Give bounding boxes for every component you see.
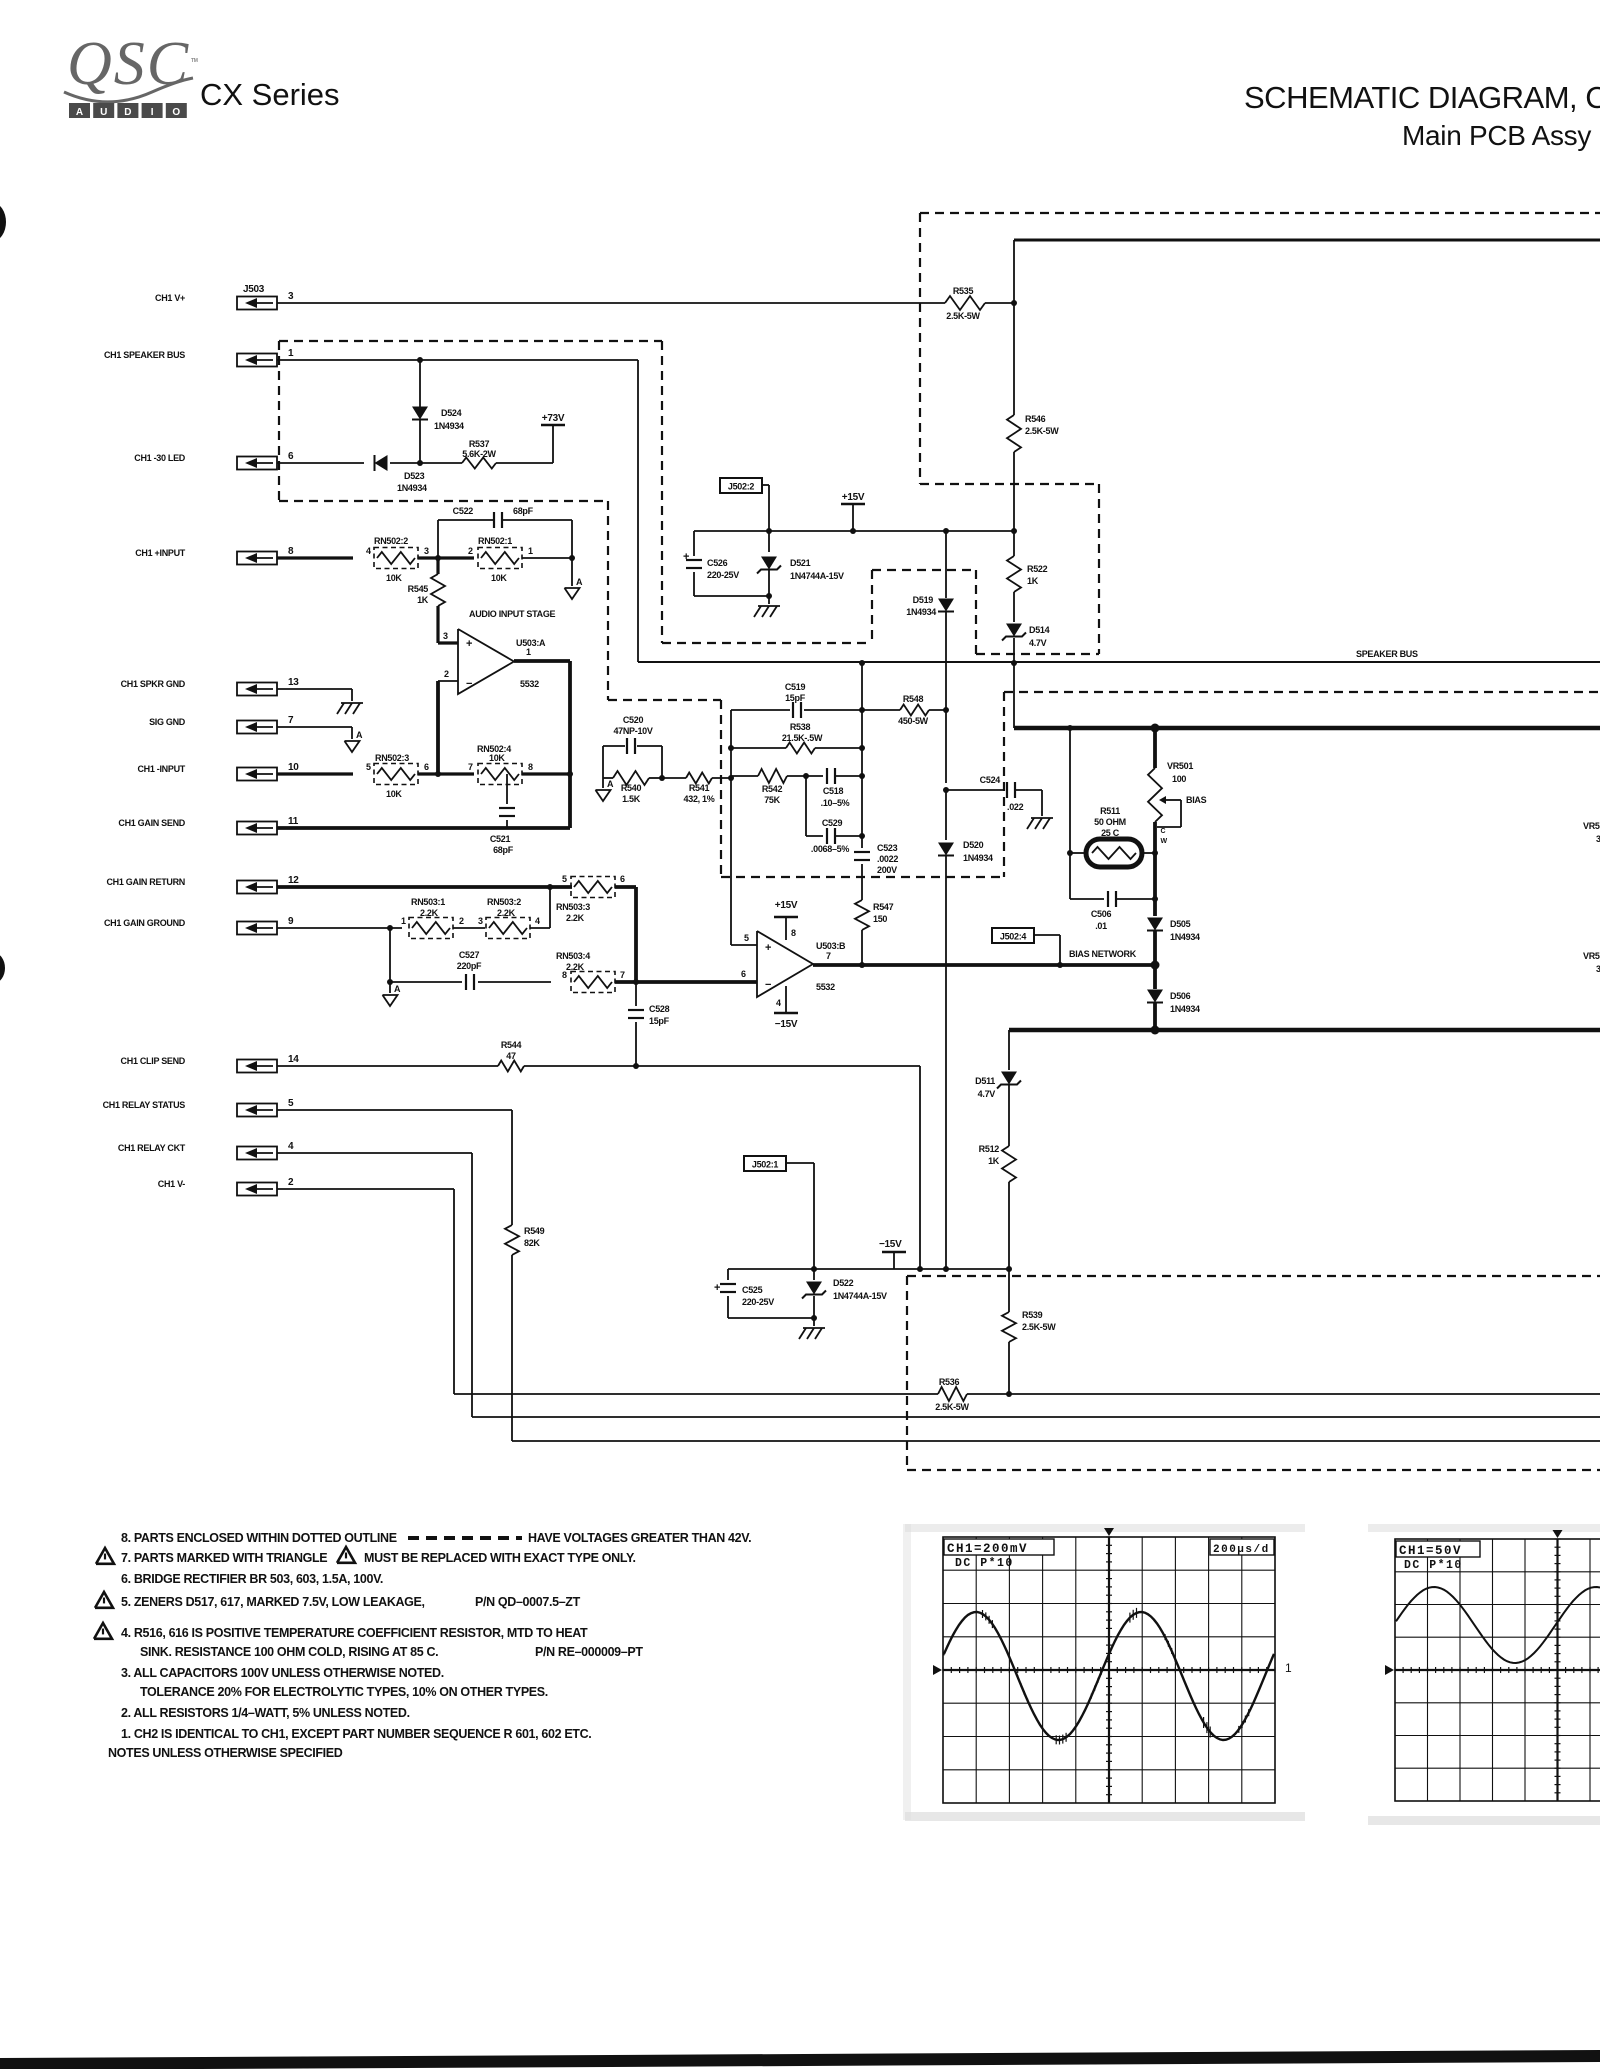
svg-text:5532: 5532 xyxy=(520,679,539,689)
connector J503 pin 11 (CH1 GAIN SEND) xyxy=(118,816,298,835)
ground (D522) xyxy=(799,1318,825,1339)
svg-text:2.2K: 2.2K xyxy=(497,908,516,918)
svg-text:3: 3 xyxy=(1596,964,1600,974)
svg-text:DC P*10: DC P*10 xyxy=(955,1557,1014,1570)
svg-text:.10–5%: .10–5% xyxy=(821,798,850,808)
wire J502:2 to +15V rail xyxy=(762,485,772,534)
wire RN502:2 to RN502:1 xyxy=(418,555,474,561)
svg-text:4: 4 xyxy=(776,998,781,1008)
capacitor C529 xyxy=(806,776,865,854)
svg-text:68pF: 68pF xyxy=(513,506,534,516)
svg-text:6: 6 xyxy=(288,451,294,462)
connector J503 pin 4 (CH1 RELAY CKT) xyxy=(118,1141,294,1160)
svg-text:A: A xyxy=(76,107,83,118)
wire CH1 -INPUT (J503:10) xyxy=(277,772,353,775)
wire CH1 CLIP SEND (J503:14) xyxy=(277,1065,498,1067)
svg-text:8: 8 xyxy=(528,762,533,772)
svg-text:R538: R538 xyxy=(790,722,811,732)
svg-text:−: − xyxy=(765,979,771,991)
diode D519 xyxy=(906,531,954,710)
label VR503 (cut at edge) xyxy=(1583,951,1600,974)
svg-text:Main PCB Assy: Main PCB Assy xyxy=(1402,120,1591,151)
wire gain return down xyxy=(634,887,638,982)
hole punch mark (top left edge) xyxy=(0,203,6,241)
svg-text:CH1=50V: CH1=50V xyxy=(1399,1544,1462,1558)
svg-text:R544: R544 xyxy=(501,1040,522,1050)
wire U503:A -in xyxy=(438,669,458,681)
svg-text:AUDIO INPUT STAGE: AUDIO INPUT STAGE xyxy=(469,609,556,619)
resistor R522 xyxy=(1007,531,1048,592)
svg-text:CH1 GAIN SEND: CH1 GAIN SEND xyxy=(118,818,185,828)
svg-text:432, 1%: 432, 1% xyxy=(684,794,715,804)
note 1 xyxy=(121,1727,591,1741)
svg-text:1.5K: 1.5K xyxy=(622,794,641,804)
svg-text:5.6K-2W: 5.6K-2W xyxy=(462,449,496,459)
resistor network RN502:3 xyxy=(366,753,429,799)
svg-text:CX Series: CX Series xyxy=(200,77,340,112)
svg-text:4.7V: 4.7V xyxy=(978,1089,996,1099)
wire R549 to right edge xyxy=(512,1255,1600,1441)
svg-text:R545: R545 xyxy=(408,584,429,594)
svg-text:R535: R535 xyxy=(953,286,974,296)
wire heavy bus bottom xyxy=(1009,1026,1600,1035)
svg-text:10K: 10K xyxy=(386,573,402,583)
wire bias column mid xyxy=(1153,853,1157,916)
svg-text:CH1 -INPUT: CH1 -INPUT xyxy=(137,764,185,774)
svg-text:1K: 1K xyxy=(988,1156,1000,1166)
svg-text:7: 7 xyxy=(468,762,473,772)
resistor R549 xyxy=(505,1225,545,1255)
svg-text:7. PARTS MARKED WITH TRIANGLE: 7. PARTS MARKED WITH TRIANGLE xyxy=(121,1551,327,1565)
svg-text:R542: R542 xyxy=(762,784,783,794)
svg-text:P/N RE–000009–PT: P/N RE–000009–PT xyxy=(535,1645,643,1659)
connector J503 pin 13 (CH1 SPKR GND) xyxy=(121,677,300,696)
svg-text:C528: C528 xyxy=(649,1004,670,1014)
svg-text:15pF: 15pF xyxy=(649,1016,670,1026)
wire R536 to right edge xyxy=(967,1391,1600,1397)
zener diode D514 xyxy=(1002,592,1050,728)
wire output rail mid xyxy=(861,710,863,848)
svg-text:8: 8 xyxy=(562,970,567,980)
svg-text:5: 5 xyxy=(366,762,371,772)
QSC logo xyxy=(64,30,198,102)
svg-text:TM: TM xyxy=(191,58,198,64)
svg-text:D521: D521 xyxy=(790,558,811,568)
oscilloscope screen 2 (CH1=50V) xyxy=(1385,1530,1600,1801)
ground (spkr gnd) xyxy=(337,703,363,714)
wire speaker bus (to right edge) xyxy=(638,661,1600,663)
svg-text:C525: C525 xyxy=(742,1285,763,1295)
resistor R545 xyxy=(408,558,445,606)
svg-text:+73V: +73V xyxy=(542,413,565,424)
wire speaker bus down xyxy=(637,360,639,662)
wire +in rail (C519/R538 left) xyxy=(728,710,734,778)
svg-text:7: 7 xyxy=(288,715,294,726)
wire D511 branch top xyxy=(1008,1030,1010,1070)
label pin 6 (U503:B) xyxy=(741,969,746,979)
svg-text:2. ALL RESISTORS 1/4–WATT, 5%: 2. ALL RESISTORS 1/4–WATT, 5% UNLESS NOT… xyxy=(121,1706,410,1720)
svg-text:1N4934: 1N4934 xyxy=(906,607,936,617)
zener diode D521 xyxy=(757,531,844,596)
svg-text:1K: 1K xyxy=(417,595,429,605)
ground (D521) xyxy=(754,596,780,617)
svg-text:200μs/d: 200μs/d xyxy=(1213,1544,1270,1556)
svg-text:1. CH2 IS IDENTICAL TO CH1, EX: 1. CH2 IS IDENTICAL TO CH1, EXCEPT PART … xyxy=(121,1727,591,1741)
svg-text:+: + xyxy=(765,942,771,954)
wire -15V rail xyxy=(728,1266,1012,1272)
svg-text:SPEAKER BUS: SPEAKER BUS xyxy=(1356,649,1418,659)
thermistor R511 xyxy=(1067,806,1155,867)
svg-text:25 C: 25 C xyxy=(1101,828,1120,838)
ground A (C520 loop) xyxy=(596,778,615,801)
hole punch mark (mid left edge) xyxy=(0,953,5,983)
svg-text:12: 12 xyxy=(288,875,299,886)
svg-text:R547: R547 xyxy=(873,902,894,912)
svg-text:D506: D506 xyxy=(1170,991,1191,1001)
svg-text:R522: R522 xyxy=(1027,564,1048,574)
svg-text:RN502:2: RN502:2 xyxy=(374,536,408,546)
wire bias network output xyxy=(813,961,1160,970)
capacitor C518 xyxy=(787,768,865,808)
wire R546 to +15V rail xyxy=(1013,452,1015,531)
svg-text:−15V: −15V xyxy=(879,1239,902,1250)
ground (C524) xyxy=(1027,818,1053,829)
op-amp U503:B xyxy=(757,931,846,997)
wire CH1 RELAY STATUS (J503:5) xyxy=(277,1110,512,1225)
svg-text:8: 8 xyxy=(288,546,294,557)
resistor R548 xyxy=(862,694,949,726)
svg-text:.0022: .0022 xyxy=(877,854,898,864)
svg-text:+: + xyxy=(683,551,689,563)
svg-text:CH1 +INPUT: CH1 +INPUT xyxy=(135,548,186,558)
svg-text:C520: C520 xyxy=(623,715,644,725)
svg-text:CH1=200mV: CH1=200mV xyxy=(947,1542,1028,1556)
wire CH1 SPEAKER BUS (J503:1) xyxy=(277,357,638,363)
label CW (VR501) xyxy=(1161,828,1168,845)
wire V+ node down to R546 xyxy=(1013,303,1015,415)
svg-text:1: 1 xyxy=(1285,1661,1292,1675)
svg-text:6. BRIDGE RECTIFIER BR 503, 60: 6. BRIDGE RECTIFIER BR 503, 603, 1.5A, 1… xyxy=(121,1572,383,1586)
diode D523 xyxy=(375,455,428,493)
wire R544 to clip node xyxy=(524,1063,920,1069)
svg-text:3. ALL CAPACITORS 100V UNLESS: 3. ALL CAPACITORS 100V UNLESS OTHERWISE … xyxy=(121,1666,444,1680)
svg-text:CH1 RELAY CKT: CH1 RELAY CKT xyxy=(118,1143,186,1153)
zener diode D511 xyxy=(975,1072,1021,1147)
svg-text:R539: R539 xyxy=(1022,1310,1043,1320)
svg-text:200V: 200V xyxy=(877,865,897,875)
svg-text:RN503:1: RN503:1 xyxy=(411,897,445,907)
scan bar (bottom) xyxy=(0,2050,1600,2069)
resistor R535 xyxy=(945,286,985,321)
wire RN503:1 to RN503:2 xyxy=(453,927,485,929)
wire D523 to D524 node xyxy=(390,460,462,466)
wire CH1 GAIN RETURN (J503:12) xyxy=(277,884,572,890)
svg-text:R512: R512 xyxy=(979,1144,1000,1154)
svg-text:U: U xyxy=(100,107,107,118)
svg-text:82K: 82K xyxy=(524,1238,540,1248)
svg-text:D519: D519 xyxy=(913,595,934,605)
svg-text:2.5K-5W: 2.5K-5W xyxy=(935,1402,969,1412)
svg-text:4: 4 xyxy=(366,546,371,556)
svg-text:U503:A: U503:A xyxy=(516,638,546,648)
oscilloscope screen 1 (CH1=200mV) xyxy=(933,1528,1292,1803)
svg-text:VR501: VR501 xyxy=(1167,761,1193,771)
svg-text:50 OHM: 50 OHM xyxy=(1094,817,1126,827)
svg-text:150: 150 xyxy=(873,914,887,924)
note 7 xyxy=(96,1547,636,1565)
wire R545 to U503:A +in xyxy=(438,606,458,643)
connector J503 pin 8 (CH1 +INPUT) xyxy=(135,546,294,565)
svg-text:A: A xyxy=(394,984,401,994)
wire RN502:4 out xyxy=(522,771,573,777)
wire clip node down to -15V rail xyxy=(917,1066,923,1272)
svg-text:D522: D522 xyxy=(833,1278,854,1288)
note 5 xyxy=(95,1592,581,1609)
wire CH1 +INPUT (J503:8) xyxy=(277,556,353,559)
svg-text:RN502:1: RN502:1 xyxy=(478,536,512,546)
resistor network RN503:4 xyxy=(556,951,625,993)
wire +15V rail xyxy=(694,528,1017,534)
svg-text:1N4744A-15V: 1N4744A-15V xyxy=(790,571,844,581)
capacitor C522 (feedback loop) xyxy=(438,506,572,558)
wire +in rail down to U503:B xyxy=(730,778,732,945)
svg-text:+: + xyxy=(466,638,472,650)
wire gain ground down xyxy=(387,928,393,985)
svg-text:2.5K-5W: 2.5K-5W xyxy=(1025,426,1059,436)
diode D524 xyxy=(412,360,464,463)
svg-text:1: 1 xyxy=(526,647,531,657)
svg-text:R541: R541 xyxy=(689,783,710,793)
connector J503 pin 10 (CH1 -INPUT) xyxy=(137,762,299,781)
connector J502:1 xyxy=(744,1156,786,1171)
wire J502:1 down xyxy=(786,1163,817,1272)
svg-text:D514: D514 xyxy=(1029,625,1050,635)
svg-text:D520: D520 xyxy=(963,840,984,850)
capacitor C521 xyxy=(490,774,515,855)
svg-text:6: 6 xyxy=(620,874,625,884)
wire feedback (output to gain send) xyxy=(568,661,572,828)
capacitor C523 xyxy=(854,843,898,900)
note 6 xyxy=(121,1572,383,1586)
note 4 xyxy=(94,1623,643,1659)
resistor R537 xyxy=(462,439,497,469)
svg-text:5: 5 xyxy=(288,1098,294,1109)
svg-text:1: 1 xyxy=(288,348,294,359)
svg-text:VR50: VR50 xyxy=(1583,821,1600,831)
svg-text:−: − xyxy=(466,678,472,690)
svg-text:7: 7 xyxy=(620,970,625,980)
net label SPEAKER BUS xyxy=(1356,649,1418,659)
svg-text:RN503:3: RN503:3 xyxy=(556,902,590,912)
wire CH1 -30 LED (J503:6) xyxy=(277,462,364,464)
svg-text:.0068–5%: .0068–5% xyxy=(811,844,849,854)
note 3 xyxy=(121,1666,548,1699)
wire D519 rail down xyxy=(943,710,949,793)
op-amp U503:A xyxy=(458,629,546,694)
note 2 xyxy=(121,1706,410,1720)
svg-text:D511: D511 xyxy=(975,1076,995,1086)
connector J503 pin 9 (CH1 GAIN GROUND) xyxy=(104,916,294,935)
ground A (+input) xyxy=(565,558,584,599)
svg-text:SINK. RESISTANCE 100 OHM COLD: SINK. RESISTANCE 100 OHM COLD, RISING AT… xyxy=(140,1645,438,1659)
svg-text:CH1 -30 LED: CH1 -30 LED xyxy=(134,453,186,463)
resistor network RN503:3 xyxy=(556,874,625,923)
sheet title SCHEMATIC DIAGRAM xyxy=(1244,80,1600,115)
svg-text:4.7V: 4.7V xyxy=(1029,638,1047,648)
wire RN503:4 to U503:B -in xyxy=(615,979,757,985)
svg-text:11: 11 xyxy=(288,816,299,827)
wire gain return tap xyxy=(549,887,551,928)
svg-text:W: W xyxy=(1161,838,1168,845)
capacitor C526 xyxy=(683,531,739,596)
wire CH1 RELAY CKT (J503:4) xyxy=(277,1153,1600,1417)
svg-text:DC P*10: DC P*10 xyxy=(1404,1559,1463,1572)
ground A (sig gnd) xyxy=(345,730,364,752)
resistor R546 xyxy=(1007,414,1059,452)
capacitor C525 xyxy=(714,1269,774,1318)
svg-text:5: 5 xyxy=(562,874,567,884)
svg-text:SIG GND: SIG GND xyxy=(149,717,186,727)
svg-text:.01: .01 xyxy=(1095,921,1107,931)
svg-text:1N4934: 1N4934 xyxy=(434,421,464,431)
svg-text:+15V: +15V xyxy=(775,900,798,911)
svg-text:C521: C521 xyxy=(490,834,511,844)
connector J503 pin 2 (CH1 V-) xyxy=(158,1177,294,1196)
resistor network RN502:1 xyxy=(468,536,533,583)
svg-text:CH1 GAIN GROUND: CH1 GAIN GROUND xyxy=(104,918,186,928)
svg-text:8: 8 xyxy=(791,928,796,938)
connector J503 label xyxy=(243,284,265,295)
svg-text:6: 6 xyxy=(424,762,429,772)
svg-text:5: 5 xyxy=(744,933,749,943)
svg-text:1N4934: 1N4934 xyxy=(963,853,993,863)
svg-text:220-25V: 220-25V xyxy=(742,1297,774,1307)
wire C525 to D522 bottom xyxy=(728,1315,817,1321)
svg-text:5532: 5532 xyxy=(816,982,835,992)
diode D520 xyxy=(938,790,993,1269)
svg-text:15pF: 15pF xyxy=(785,693,806,703)
svg-text:C524: C524 xyxy=(980,775,1001,785)
svg-text:3: 3 xyxy=(1596,834,1600,844)
svg-text:U503:B: U503:B xyxy=(816,941,846,951)
connector J502:4 xyxy=(992,928,1060,965)
svg-text:R540: R540 xyxy=(621,783,642,793)
svg-text:CH1 CLIP SEND: CH1 CLIP SEND xyxy=(121,1056,186,1066)
resistor R538 xyxy=(731,722,865,754)
wire CH1 GAIN SEND (J503:11) xyxy=(277,826,570,830)
svg-text:1N4934: 1N4934 xyxy=(1170,1004,1200,1014)
wire R541 to +in rail xyxy=(712,775,734,781)
capacitor C519 xyxy=(731,682,865,718)
svg-text:CH1 V+: CH1 V+ xyxy=(155,293,185,303)
svg-text:J502:2: J502:2 xyxy=(728,482,755,492)
connector J503 pin 1 (CH1 SPEAKER BUS) xyxy=(104,348,294,367)
sheet subtitle Main PCB Assy xyxy=(1402,120,1591,151)
svg-text:J503: J503 xyxy=(243,284,265,295)
resistor network RN502:4 xyxy=(468,744,533,785)
svg-text:2.5K-5W: 2.5K-5W xyxy=(1022,1322,1056,1332)
svg-text:A: A xyxy=(576,577,583,587)
svg-text:10K: 10K xyxy=(489,753,505,763)
svg-text:2.2K: 2.2K xyxy=(566,962,585,972)
wire RN502:3 to RN502:4 xyxy=(418,771,474,777)
svg-text:HAVE VOLTAGES GREATER THAN 42V: HAVE VOLTAGES GREATER THAN 42V. xyxy=(528,1531,751,1545)
wire heavy bus top (V rail to output devices) xyxy=(1014,724,1600,733)
svg-text:RN503:2: RN503:2 xyxy=(487,897,521,907)
label VR502 (cut at edge) xyxy=(1583,821,1600,844)
svg-text:2: 2 xyxy=(444,669,449,679)
wire CH1 V+ (J503:3 to R535) xyxy=(277,302,945,304)
connector J503 pin 7 (SIG GND) xyxy=(149,715,294,734)
svg-text:I: I xyxy=(151,107,154,118)
svg-text:QSC: QSC xyxy=(67,30,190,98)
resistor network RN503:2 xyxy=(478,897,540,939)
wire RN503:2 to tap xyxy=(530,927,550,929)
svg-text:A: A xyxy=(356,730,363,740)
svg-text:3: 3 xyxy=(478,916,483,926)
zener diode D522 xyxy=(802,1269,887,1318)
wire U503:A output xyxy=(514,659,570,663)
resistor R547 xyxy=(855,900,894,965)
wire output rail (speaker bus tap) xyxy=(859,660,865,710)
svg-text:D: D xyxy=(124,107,131,118)
svg-text:68pF: 68pF xyxy=(493,845,514,855)
svg-text:BIAS: BIAS xyxy=(1186,795,1207,805)
svg-text:+15V: +15V xyxy=(842,492,865,503)
svg-text:5. ZENERS D517, 617, MARKED 7.: 5. ZENERS D517, 617, MARKED 7.5V, LOW LE… xyxy=(121,1595,425,1609)
svg-text:CH1 SPEAKER BUS: CH1 SPEAKER BUS xyxy=(104,350,185,360)
wire SIG GND (J503:7) xyxy=(277,727,352,739)
svg-text:450-5W: 450-5W xyxy=(898,716,929,726)
power +15V (U503:B pin 8) xyxy=(774,900,798,940)
svg-text:R537: R537 xyxy=(469,439,490,449)
svg-text:R549: R549 xyxy=(524,1226,545,1236)
svg-text:2: 2 xyxy=(459,916,464,926)
svg-text:RN502:3: RN502:3 xyxy=(375,753,409,763)
scan noise band (left scope) xyxy=(903,1524,1305,1821)
svg-text:R511: R511 xyxy=(1100,806,1120,816)
svg-text:R548: R548 xyxy=(903,694,924,704)
capacitor C520 / resistor R540 parallel xyxy=(603,715,665,804)
power -15V (rail) xyxy=(879,1239,906,1269)
svg-text:3: 3 xyxy=(424,546,429,556)
svg-text:C526: C526 xyxy=(707,558,728,568)
resistor R541 xyxy=(662,773,715,805)
svg-text:C506: C506 xyxy=(1091,909,1112,919)
svg-text:RN503:4: RN503:4 xyxy=(556,951,590,961)
svg-text:2.5K-5W: 2.5K-5W xyxy=(946,311,980,321)
svg-text:2: 2 xyxy=(288,1177,294,1188)
svg-text:C529: C529 xyxy=(822,818,843,828)
wire U503:B +in xyxy=(731,933,757,945)
svg-text:1N4934: 1N4934 xyxy=(1170,932,1200,942)
svg-text:J502:1: J502:1 xyxy=(752,1160,779,1170)
svg-text:J502:4: J502:4 xyxy=(1000,932,1027,942)
svg-text:7: 7 xyxy=(826,951,831,961)
svg-text:100: 100 xyxy=(1172,774,1186,784)
label AUDIO INPUT STAGE xyxy=(469,609,556,619)
wire CH1 V- (J503:2) xyxy=(277,1189,938,1394)
ground A (gain ground) xyxy=(383,982,402,1006)
svg-text:D523: D523 xyxy=(404,471,425,481)
svg-text:+: + xyxy=(714,1282,720,1294)
notes heading xyxy=(108,1746,343,1760)
svg-text:6: 6 xyxy=(741,969,746,979)
svg-text:1: 1 xyxy=(528,546,533,556)
note 8 xyxy=(121,1531,751,1545)
svg-text:75K: 75K xyxy=(764,795,780,805)
svg-text:2: 2 xyxy=(468,546,473,556)
